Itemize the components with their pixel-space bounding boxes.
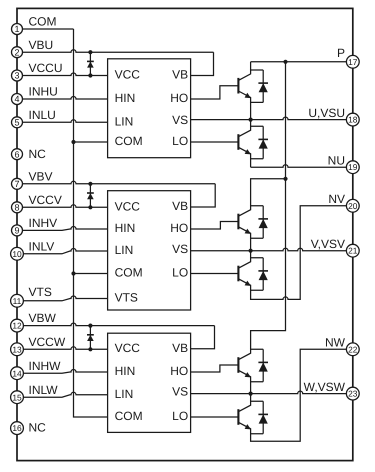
wire Q5 emitter to W midpoint: [250, 382, 252, 394]
svg-text:4: 4: [14, 94, 19, 104]
svg-text:11: 11: [13, 296, 22, 306]
pin 9 INHV: [12, 216, 58, 236]
wire W driver HO to Q5 gate: [191, 365, 239, 372]
svg-text:5: 5: [14, 117, 19, 127]
svg-text:VS: VS: [172, 113, 188, 127]
wire U driver HO to Q1 gate: [191, 86, 239, 99]
pin 7 VBV: [12, 169, 53, 189]
wire Q4 emitter / NV routing to pin20: [251, 206, 347, 300]
wire pin15 INLW to W driver LIN: [22, 392, 107, 397]
svg-text:V,VSV: V,VSV: [311, 237, 345, 251]
wire Q1 emitter to U midpoint: [250, 102, 252, 119]
junction D1 anode / VCCU: [88, 73, 92, 77]
pin 18 U,VSU: [308, 106, 359, 126]
gate driver block U driver: [108, 59, 191, 158]
wire Q6 emitter / NW routing to pin22: [251, 349, 347, 441]
pin 15 INLW: [11, 383, 59, 404]
wire COM bus tap to V driver COM: [74, 273, 108, 275]
svg-text:3: 3: [14, 71, 19, 81]
svg-text:INLV: INLV: [29, 239, 55, 253]
junction P rail: [283, 60, 287, 64]
svg-text:HIN: HIN: [115, 221, 136, 235]
svg-text:VB: VB: [172, 341, 188, 355]
svg-text:VTS: VTS: [115, 291, 138, 305]
svg-text:COM: COM: [115, 266, 143, 280]
pin 16 NC: [11, 421, 47, 435]
transistor Q4 V-phase low side IGBT with freewheel diode: [238, 258, 268, 290]
svg-text:VCC: VCC: [115, 68, 141, 82]
wire Q1 collector to P rail: [250, 62, 252, 70]
svg-text:22: 22: [348, 344, 358, 354]
svg-text:VS: VS: [172, 242, 188, 256]
gate driver block W driver: [108, 333, 191, 432]
svg-text:INHW: INHW: [29, 359, 62, 373]
wire COM bus tap to U driver COM: [74, 141, 108, 143]
junction D3 cathode / VBW: [88, 324, 92, 328]
bootstrap diode D1 (U): [87, 52, 94, 75]
P rail vertical drop: [251, 62, 286, 350]
svg-text:6: 6: [14, 149, 19, 159]
svg-text:COM: COM: [29, 15, 57, 29]
svg-text:LO: LO: [172, 409, 188, 423]
wire pin2 VBU line: [22, 50, 213, 52]
transistor Q5 W-phase high side IGBT with freewheel diode: [238, 349, 268, 381]
svg-text:HO: HO: [170, 221, 188, 235]
svg-text:13: 13: [12, 344, 22, 354]
pin 21 V,VSV: [311, 237, 359, 257]
svg-text:VCCW: VCCW: [29, 335, 66, 349]
svg-text:NC: NC: [29, 421, 47, 435]
svg-text:LO: LO: [172, 266, 188, 280]
pin 4 INHU: [12, 85, 58, 105]
wire pin8 VCCV to V driver VCC: [22, 205, 107, 207]
svg-text:INLW: INLW: [29, 383, 59, 397]
svg-text:NC: NC: [29, 147, 47, 161]
pin 11 VTS: [11, 285, 52, 307]
svg-text:HIN: HIN: [115, 91, 136, 105]
pin 2 VBU: [12, 38, 54, 58]
junction D3 anode / VCCW: [88, 347, 92, 351]
svg-text:INHV: INHV: [29, 216, 58, 230]
svg-text:NW: NW: [325, 336, 346, 350]
junction COM bus / U driver COM: [71, 140, 75, 144]
wire P rail to pin17: [251, 61, 347, 63]
wire V driver LO to Q4 gate: [191, 273, 239, 275]
svg-text:VBU: VBU: [29, 38, 54, 52]
svg-text:LIN: LIN: [115, 114, 134, 128]
pin 1 COM: [12, 15, 57, 35]
junction COM bus / V driver COM: [71, 271, 75, 275]
pin 10 INLV: [11, 239, 55, 260]
wire W driver LO to Q6 gate: [191, 416, 239, 418]
pin 20 NV: [328, 192, 359, 212]
svg-text:12: 12: [12, 321, 22, 331]
svg-text:10: 10: [12, 249, 22, 259]
svg-text:VCC: VCC: [115, 200, 141, 214]
svg-text:COM: COM: [115, 409, 143, 423]
wire VBV down to V driver VB: [191, 184, 216, 207]
svg-text:14: 14: [12, 368, 22, 378]
transistor Q6 W-phase low side IGBT with freewheel diode: [238, 401, 268, 433]
bootstrap diode D2 (V): [87, 184, 94, 208]
wire pin7 VBV line: [22, 181, 215, 183]
svg-text:7: 7: [14, 179, 19, 189]
svg-text:19: 19: [348, 162, 358, 172]
wire V driver HO to Q3 gate: [191, 222, 239, 230]
svg-text:17: 17: [348, 57, 358, 67]
pin 3 VCCU: [12, 61, 63, 81]
wire Q2 emitter to NU line: [250, 159, 252, 168]
pin 12 VBW: [11, 311, 57, 332]
bootstrap diode D3 (W): [87, 326, 94, 350]
svg-text:23: 23: [348, 389, 358, 399]
wire VBW down to W driver VB: [191, 326, 215, 349]
svg-text:INLU: INLU: [29, 108, 56, 122]
svg-text:HO: HO: [170, 91, 188, 105]
wire U driver VS / U,VSU line to pin18: [191, 117, 347, 120]
gate driver block V driver: [108, 191, 191, 310]
svg-text:VB: VB: [172, 68, 188, 82]
wire pin3 VCCU to U driver VCC: [22, 73, 107, 76]
svg-text:NV: NV: [328, 192, 345, 206]
junction D2 cathode / VBV: [88, 182, 92, 186]
svg-text:P: P: [337, 46, 345, 60]
svg-text:15: 15: [12, 392, 22, 402]
svg-text:VBV: VBV: [29, 169, 53, 183]
pin 17 P: [337, 46, 359, 68]
pin 14 INHW: [11, 359, 62, 380]
svg-text:9: 9: [14, 226, 19, 236]
wire pin11 VTS to V driver VTS: [22, 296, 107, 301]
wire V driver VS / V,VSV line to pin21: [191, 248, 347, 251]
svg-text:16: 16: [12, 423, 22, 433]
svg-text:VCC: VCC: [115, 341, 141, 355]
wire pin5 INLU to U driver LIN: [22, 120, 107, 123]
svg-text:1: 1: [14, 24, 19, 34]
wire U driver LO to Q2 gate: [191, 141, 239, 143]
svg-text:VBW: VBW: [29, 311, 57, 325]
wire pin14 INHW to W driver HIN: [22, 370, 107, 374]
svg-text:8: 8: [14, 202, 19, 212]
pin 5 INLU: [12, 108, 56, 128]
wire pin12 VBW line: [22, 323, 214, 326]
svg-text:VB: VB: [172, 199, 188, 213]
svg-text:HIN: HIN: [115, 364, 136, 378]
junction D2 anode / VCCV: [88, 205, 92, 209]
svg-text:INHU: INHU: [29, 85, 58, 99]
pin 23 W,VSW: [304, 380, 360, 400]
svg-text:LIN: LIN: [115, 387, 134, 401]
pin 6 NC: [12, 147, 47, 161]
svg-text:LIN: LIN: [115, 243, 134, 257]
junction D1 cathode / VBU: [88, 50, 92, 54]
svg-text:VS: VS: [172, 385, 188, 399]
junction V midpoint: [249, 249, 253, 253]
COM bus vertical: [74, 29, 108, 417]
junction P vertical / V-phase collector: [283, 177, 287, 181]
svg-text:LO: LO: [172, 134, 188, 148]
svg-text:VCCV: VCCV: [29, 193, 62, 207]
wire Q2 collector from U midpoint: [250, 120, 252, 127]
pin 19 NU: [328, 154, 360, 174]
svg-text:VTS: VTS: [29, 285, 52, 299]
wire pin4 INHU to U driver HIN: [22, 97, 107, 99]
wire Q3 emitter to V midpoint: [250, 238, 252, 251]
transistor Q2 U-phase low side IGBT with freewheel diode: [238, 126, 268, 158]
wire Q6 collector from W midpoint: [250, 394, 252, 402]
svg-text:W,VSW: W,VSW: [304, 380, 346, 394]
pin 13 VCCW: [11, 335, 66, 356]
svg-text:COM: COM: [115, 134, 143, 148]
wire pin13 VCCW to W driver VCC: [22, 347, 107, 350]
wire pin9 INHV to V driver HIN: [22, 227, 107, 231]
pin 8 VCCV: [12, 193, 62, 213]
svg-text:HO: HO: [170, 364, 188, 378]
svg-text:2: 2: [14, 47, 19, 57]
wire NU line to pin19: [251, 165, 347, 168]
svg-text:VCCU: VCCU: [29, 61, 63, 75]
svg-text:21: 21: [348, 246, 358, 256]
pin 22 NW: [325, 336, 359, 356]
svg-text:U,VSU: U,VSU: [308, 106, 345, 120]
wire VBU down to U driver VB: [191, 52, 214, 75]
wire W driver VS / W,VSW line to pin23: [191, 391, 347, 394]
transistor Q1 U-phase high side IGBT with freewheel diode: [238, 70, 268, 102]
junction W midpoint: [249, 392, 253, 396]
wire pin10 INLV to V driver LIN: [22, 249, 107, 254]
wire pin1 COM to COM bus: [22, 28, 73, 30]
svg-text:18: 18: [348, 115, 358, 125]
wire P tap to Q3 collector: [251, 179, 286, 206]
svg-text:NU: NU: [328, 154, 345, 168]
junction U midpoint: [249, 118, 253, 122]
svg-text:20: 20: [348, 201, 358, 211]
transistor Q3 V-phase high side IGBT with freewheel diode: [238, 206, 268, 238]
wire Q4 collector from V midpoint: [250, 251, 252, 258]
